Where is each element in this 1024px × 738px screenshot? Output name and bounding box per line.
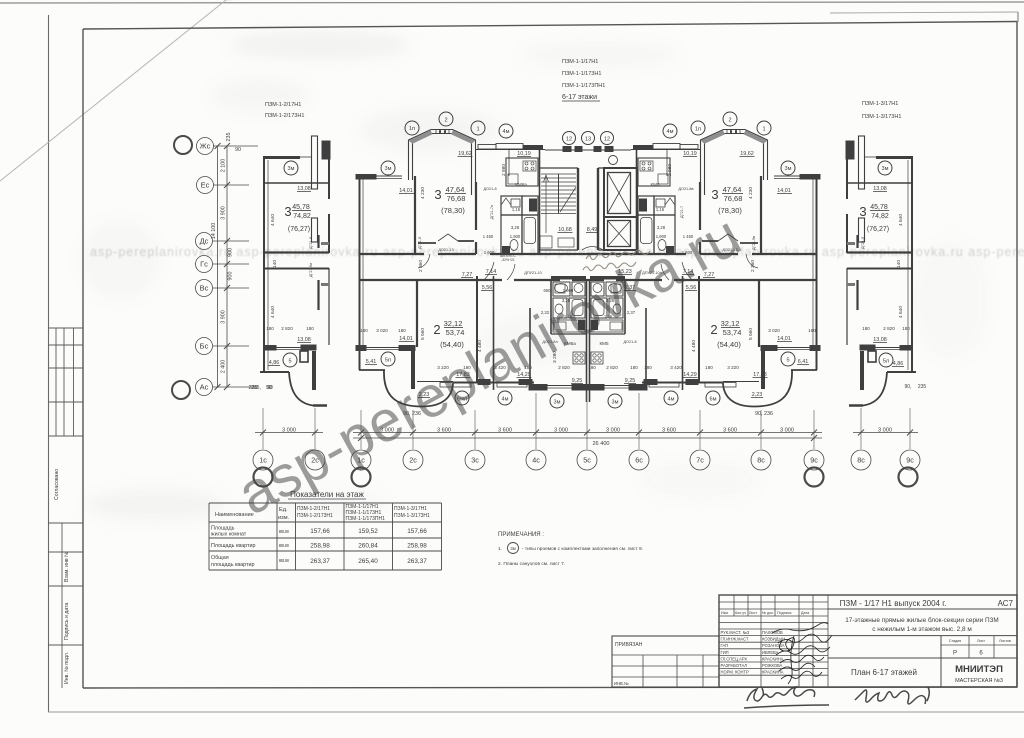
svg-text:(78,30): (78,30) xyxy=(441,206,465,215)
svg-text:1,16: 1,16 xyxy=(604,314,613,319)
svg-text:235: 235 xyxy=(918,384,927,390)
title area texts xyxy=(840,599,1014,684)
svg-text:Взам. инв №: Взам. инв № xyxy=(64,551,70,582)
svg-text:900: 900 xyxy=(228,272,234,281)
svg-text:76,68: 76,68 xyxy=(447,194,466,203)
svg-text:13: 13 xyxy=(585,137,591,143)
svg-text:5,56: 5,56 xyxy=(482,285,493,291)
svg-text:3: 3 xyxy=(859,204,866,219)
svg-text:5,56: 5,56 xyxy=(686,285,697,291)
left tower window wall xyxy=(264,346,276,351)
bay window walls (outlined) xyxy=(409,130,476,196)
svg-text:3 420: 3 420 xyxy=(494,365,506,370)
svg-text:3м: 3м xyxy=(612,400,619,406)
svg-text:№ док.: № док. xyxy=(762,611,774,615)
svg-text:263,37: 263,37 xyxy=(407,558,427,565)
svg-text:7,14: 7,14 xyxy=(683,269,694,275)
svg-text:5 560: 5 560 xyxy=(420,328,426,340)
svg-text:19,62: 19,62 xyxy=(458,151,472,157)
svg-text:19,62: 19,62 xyxy=(740,151,754,157)
svg-text:10,19: 10,19 xyxy=(683,151,697,157)
svg-text:45,78: 45,78 xyxy=(292,204,310,211)
svg-text:53,74: 53,74 xyxy=(723,328,742,337)
svg-text:7с: 7с xyxy=(696,456,704,465)
svg-text:90: 90 xyxy=(235,147,241,153)
kitchen xyxy=(506,158,538,186)
svg-text:180: 180 xyxy=(630,365,638,370)
svg-text:13,08: 13,08 xyxy=(297,186,311,192)
svg-text:Дата: Дата xyxy=(801,611,810,615)
bottom axis extension lines xyxy=(263,393,910,449)
svg-text:13,08: 13,08 xyxy=(873,186,887,192)
svg-text:1п: 1п xyxy=(695,127,701,133)
scan mottling xyxy=(80,31,990,521)
svg-text:-32%+21: -32%+21 xyxy=(501,258,515,262)
svg-text:180: 180 xyxy=(644,365,652,370)
svg-text:ПЗМ-1-3/173Н1: ПЗМ-1-3/173Н1 xyxy=(394,513,430,519)
svg-text:3,28: 3,28 xyxy=(606,298,615,303)
svg-text:2: 2 xyxy=(433,322,440,337)
svg-text:Листов: Листов xyxy=(999,639,1011,643)
svg-text:90, 236: 90, 236 xyxy=(403,411,421,417)
svg-text:157,66: 157,66 xyxy=(407,528,427,535)
left tower right wall xyxy=(328,159,330,199)
main grid horizontals xyxy=(719,602,828,675)
svg-text:жилых комнат: жилых комнат xyxy=(211,532,247,538)
svg-text:АС7: АС7 xyxy=(998,599,1014,608)
svg-text:74,82: 74,82 xyxy=(293,213,311,220)
hall top wall xyxy=(476,149,545,151)
left tower inner wall xyxy=(312,136,318,189)
svg-text:КМ5а: КМ5а xyxy=(564,341,576,346)
svg-text:14,01: 14,01 xyxy=(399,336,413,342)
svg-text:ДО21-8л: ДО21-8л xyxy=(542,340,557,344)
svg-text:Лист: Лист xyxy=(749,611,757,615)
axis circles left xyxy=(197,138,214,155)
svg-text:ДО21-13: ДО21-13 xyxy=(722,248,737,252)
outer boxes xyxy=(719,595,1017,687)
lower bath fixtures xyxy=(553,282,570,296)
svg-text:10,68: 10,68 xyxy=(558,227,572,233)
svg-text:9,25: 9,25 xyxy=(572,378,583,384)
flat3 right wall xyxy=(475,182,477,230)
svg-text:2,23: 2,23 xyxy=(752,392,763,398)
handwritten note on plan xyxy=(583,250,650,270)
svg-text:2,23: 2,23 xyxy=(419,392,430,398)
svg-text:4 230: 4 230 xyxy=(748,187,754,199)
lobby mats xyxy=(540,236,552,248)
svg-text:6м: 6м xyxy=(710,397,717,403)
top-right strip xyxy=(830,12,1018,13)
svg-text:3 000: 3 000 xyxy=(878,428,892,434)
svg-text:2 100: 2 100 xyxy=(221,159,227,173)
svg-text:ДГ21-7л: ДГ21-7л xyxy=(490,205,494,219)
svg-text:4 640: 4 640 xyxy=(898,306,904,318)
svg-text:180: 180 xyxy=(862,326,870,331)
svg-text:Подпись и дата: Подпись и дата xyxy=(64,603,70,640)
svg-text:235: 235 xyxy=(249,385,258,391)
label underlines xyxy=(268,157,904,398)
role/name rows xyxy=(721,630,786,675)
svg-text:ДГ21-9: ДГ21-9 xyxy=(418,237,422,249)
svg-text:90, 236: 90, 236 xyxy=(755,411,773,417)
svg-text:Подпись: Подпись xyxy=(777,611,792,615)
svg-text:2 820: 2 820 xyxy=(281,326,293,331)
svg-text:Инв. № подл.: Инв. № подл. xyxy=(64,652,70,684)
svg-text:Р: Р xyxy=(953,651,957,657)
svg-text:5л: 5л xyxy=(883,359,889,365)
left tower top-right pier xyxy=(322,141,330,159)
loggia walls bottom-left xyxy=(359,369,385,371)
wall between 3m room and flat3 xyxy=(414,176,416,254)
svg-text:180: 180 xyxy=(463,365,471,370)
svg-text:32,12: 32,12 xyxy=(721,319,740,328)
svg-text:Площадь квартир: Площадь квартир xyxy=(211,543,255,549)
left axis dimension texts (rotated) xyxy=(211,133,272,392)
svg-text:ДО21-8: ДО21-8 xyxy=(483,187,496,191)
svg-text:5: 5 xyxy=(786,358,789,364)
svg-text:1с: 1с xyxy=(357,456,365,465)
signatures xyxy=(772,623,832,684)
svg-text:8,49: 8,49 xyxy=(587,227,598,233)
main grid verticals xyxy=(734,595,828,687)
svg-text:2 820: 2 820 xyxy=(883,326,895,331)
svg-text:МНИИТЭП: МНИИТЭП xyxy=(955,664,1003,675)
svg-text:КМ6а: КМ6а xyxy=(515,182,527,187)
svg-text:ДПУ21-10: ДПУ21-10 xyxy=(524,271,541,275)
svg-text:площадь квартир: площадь квартир xyxy=(211,562,255,568)
svg-text:5,41: 5,41 xyxy=(366,359,377,365)
svg-text:180: 180 xyxy=(902,326,910,331)
left tower top wall xyxy=(263,156,300,159)
paper top edge xyxy=(0,2,1024,3)
svg-text:45,78: 45,78 xyxy=(870,204,888,211)
svg-text:ГЛ.СПЕЦ.АРХ: ГЛ.СПЕЦ.АРХ xyxy=(721,656,748,661)
stair treads (left only) xyxy=(540,174,576,248)
svg-text:258,98: 258,98 xyxy=(407,543,427,550)
svg-text:ДГ21-9л: ДГ21-9л xyxy=(309,263,313,277)
svg-text:ГИП: ГИП xyxy=(721,650,729,655)
svg-text:КРАСКИНА: КРАСКИНА xyxy=(762,670,784,675)
svg-text:14,29: 14,29 xyxy=(683,372,697,378)
flat2 right wall xyxy=(476,276,478,382)
svg-text:900: 900 xyxy=(228,248,234,257)
svg-text:8с: 8с xyxy=(857,456,865,465)
paper bottom edge xyxy=(48,711,1024,713)
svg-text:180: 180 xyxy=(524,365,532,370)
svg-text:6,41: 6,41 xyxy=(798,359,809,365)
svg-text:4м: 4м xyxy=(503,129,510,135)
svg-text:3 600: 3 600 xyxy=(662,428,676,434)
svg-text:ИНВ.№: ИНВ.№ xyxy=(614,681,629,686)
svg-text:ПЗМ-1-3/173Н1: ПЗМ-1-3/173Н1 xyxy=(862,114,901,120)
svg-text:2с: 2с xyxy=(311,456,319,465)
svg-text:Стадия: Стадия xyxy=(949,639,961,643)
watermark horizontal band xyxy=(90,245,1024,259)
svg-text:- типы проемов с комплектами з: - типы проемов с комплектами заполнения … xyxy=(522,546,643,552)
svg-text:3 000: 3 000 xyxy=(606,428,620,434)
tiny fixture labels xyxy=(438,182,737,346)
стадия box xyxy=(968,636,970,658)
corridor door arcs xyxy=(418,254,430,268)
svg-text:ДГ21-9: ДГ21-9 xyxy=(309,237,313,249)
svg-text:180: 180 xyxy=(398,328,406,333)
svg-text:3 000: 3 000 xyxy=(282,428,296,434)
svg-text:5с: 5с xyxy=(583,456,591,465)
svg-text:Изм: Изм xyxy=(721,611,728,615)
svg-text:3 020: 3 020 xyxy=(768,328,780,333)
svg-text:5: 5 xyxy=(288,359,291,365)
svg-text:1: 1 xyxy=(476,127,479,133)
svg-text:14,01: 14,01 xyxy=(777,336,791,342)
svg-text:3 000: 3 000 xyxy=(780,428,794,434)
lower core walls xyxy=(550,280,552,334)
svg-text:7,27: 7,27 xyxy=(462,272,473,278)
room dimension labels xyxy=(251,151,926,417)
left column rotated captions xyxy=(54,469,70,684)
svg-text:3 600: 3 600 xyxy=(723,428,737,434)
svg-text:Гс: Гс xyxy=(200,260,208,269)
svg-text:ГЛ.ИНЖ.МАСТ: ГЛ.ИНЖ.МАСТ xyxy=(721,637,749,642)
svg-text:КМ6: КМ6 xyxy=(650,182,660,187)
svg-text:ПЗМ-1-3/17Н1: ПЗМ-1-3/17Н1 xyxy=(862,101,898,107)
svg-text:7,14: 7,14 xyxy=(486,269,497,275)
svg-text:3 900: 3 900 xyxy=(221,310,227,324)
svg-text:140: 140 xyxy=(896,260,902,268)
svg-text:4м: 4м xyxy=(668,397,675,403)
top wall of core zone xyxy=(545,149,588,151)
svg-text:157,66: 157,66 xyxy=(310,528,330,535)
stove lower xyxy=(573,352,585,364)
svg-text:4 230: 4 230 xyxy=(420,187,426,199)
svg-text:ДГ21-7: ДГ21-7 xyxy=(680,206,684,218)
bottom axis circles xyxy=(253,450,920,487)
window sill outlines lower xyxy=(440,383,471,388)
svg-text:3 220: 3 220 xyxy=(437,365,449,370)
svg-text:ГАП: ГАП xyxy=(721,643,729,648)
svg-text:4,86: 4,86 xyxy=(893,361,904,367)
svg-text:258,98: 258,98 xyxy=(310,543,330,550)
svg-text:Показатели на этаж: Показатели на этаж xyxy=(290,490,364,499)
svg-text:180: 180 xyxy=(266,326,274,331)
svg-text:ПЗМ-1-2/173Н1: ПЗМ-1-2/173Н1 xyxy=(297,513,333,519)
bottom dimension lines xyxy=(255,432,323,434)
handwritten inventory number xyxy=(744,687,929,708)
svg-text:ПЗМ-1-1/173Н1: ПЗМ-1-1/173Н1 xyxy=(562,71,601,77)
svg-text:ПЗМ-1-2/17Н1: ПЗМ-1-2/17Н1 xyxy=(297,506,330,512)
bathroom cluster upper xyxy=(501,196,522,215)
left stamp column grid xyxy=(49,328,84,688)
svg-text:9с: 9с xyxy=(810,456,818,465)
svg-text:3: 3 xyxy=(284,204,291,219)
svg-text:3м: 3м xyxy=(385,166,392,172)
svg-text:кв.м: кв.м xyxy=(279,529,289,535)
svg-text:180: 180 xyxy=(705,365,713,370)
small dim strings xyxy=(266,326,910,370)
flat3 room bottom door xyxy=(418,242,436,244)
svg-text:74,82: 74,82 xyxy=(871,213,889,220)
svg-text:(54,40): (54,40) xyxy=(440,340,464,349)
svg-text:5 560: 5 560 xyxy=(748,328,754,340)
svg-text:2 820: 2 820 xyxy=(558,365,570,370)
rotated dim labels xyxy=(270,164,904,363)
svg-text:1.: 1. xyxy=(498,546,502,552)
svg-text:17,83: 17,83 xyxy=(456,372,470,378)
svg-text:4м: 4м xyxy=(667,129,674,135)
svg-text:ПЗМ-1-3/17Н1: ПЗМ-1-3/17Н1 xyxy=(394,506,427,512)
svg-text:ПЗМ-1-2/173Н1: ПЗМ-1-2/173Н1 xyxy=(265,113,304,119)
lower window wall xyxy=(399,346,415,351)
svg-text:2с: 2с xyxy=(409,456,417,465)
svg-text:13,08: 13,08 xyxy=(297,337,311,343)
left axis dimension lines xyxy=(226,146,228,387)
svg-text:ДО21-8: ДО21-8 xyxy=(623,340,636,344)
svg-text:6-17 этажи: 6-17 этажи xyxy=(562,94,597,101)
svg-text:2: 2 xyxy=(710,322,717,337)
svg-text:(54,40): (54,40) xyxy=(717,340,741,349)
svg-text:14,01: 14,01 xyxy=(777,188,791,194)
left tower floor divider xyxy=(264,182,329,184)
svg-text:3 000: 3 000 xyxy=(380,428,394,434)
svg-text:76,68: 76,68 xyxy=(724,194,743,203)
svg-text:1,16: 1,16 xyxy=(564,314,573,319)
svg-text:90,: 90, xyxy=(905,384,912,390)
svg-text:Согласовано: Согласовано xyxy=(54,469,60,500)
svg-text:14 100: 14 100 xyxy=(211,223,217,240)
flat2 left wall xyxy=(416,280,418,347)
svg-text:14,29: 14,29 xyxy=(517,372,531,378)
svg-text:3 420: 3 420 xyxy=(670,365,682,370)
svg-text:10,19: 10,19 xyxy=(517,151,531,157)
svg-text:2,37: 2,37 xyxy=(627,310,636,315)
svg-text:3м: 3м xyxy=(882,166,889,172)
svg-text:1п: 1п xyxy=(409,126,415,132)
svg-text:3м: 3м xyxy=(785,166,792,172)
svg-text:3м: 3м xyxy=(288,166,295,172)
svg-text:235: 235 xyxy=(226,133,232,142)
svg-text:12: 12 xyxy=(566,137,572,143)
svg-text:ДГ21-9: ДГ21-9 xyxy=(861,237,865,249)
lower bath extra fixtures xyxy=(555,284,565,293)
svg-text:53,74: 53,74 xyxy=(446,328,465,337)
svg-text:9с: 9с xyxy=(906,456,914,465)
svg-text:4 480: 4 480 xyxy=(477,340,483,352)
svg-text:(78,30): (78,30) xyxy=(718,206,742,215)
svg-text:3,28: 3,28 xyxy=(511,225,520,230)
tower right-side stubs xyxy=(317,235,319,248)
main top pier + window xyxy=(356,175,376,180)
main block outer left wall xyxy=(359,176,361,347)
svg-text:РОЖКОВА: РОЖКОВА xyxy=(762,663,783,668)
svg-text:180: 180 xyxy=(360,328,368,333)
stair block outline xyxy=(539,150,541,254)
paper left edge xyxy=(48,15,50,712)
svg-text:2 360: 2 360 xyxy=(750,260,756,272)
svg-text:1,16: 1,16 xyxy=(512,207,521,212)
plan circled labels xyxy=(283,112,893,408)
left tower loggia xyxy=(300,351,308,362)
left tower corridor walls xyxy=(264,251,329,253)
svg-text:17,83: 17,83 xyxy=(753,372,767,378)
svg-text:2 400: 2 400 xyxy=(221,360,227,374)
svg-text:9,25: 9,25 xyxy=(625,378,636,384)
svg-text:КМ5: КМ5 xyxy=(599,341,609,346)
svg-text:РОЗАНОВА: РОЗАНОВА xyxy=(762,643,785,648)
svg-text:ПЗМ - 1/17 Н1 выпуск 2004 г.: ПЗМ - 1/17 Н1 выпуск 2004 г. xyxy=(840,599,947,608)
svg-text:1,900: 1,900 xyxy=(510,234,521,239)
svg-text:265,40: 265,40 xyxy=(358,558,378,565)
left extension grid xyxy=(612,654,719,656)
svg-text:4с: 4с xyxy=(532,456,540,465)
svg-text:2,32: 2,32 xyxy=(541,310,550,315)
svg-text:2 980: 2 980 xyxy=(667,164,673,176)
svg-text:ПРИВЯЗАН: ПРИВЯЗАН xyxy=(615,642,643,648)
svg-text:26 400: 26 400 xyxy=(592,441,609,447)
apartment area labels xyxy=(284,185,889,349)
left tower outer wall xyxy=(263,157,265,372)
svg-text:НОРМ. КОНТР: НОРМ. КОНТР xyxy=(721,670,749,675)
corridor walls xyxy=(359,253,424,255)
svg-text:47,64: 47,64 xyxy=(446,185,465,194)
svg-text:3 600: 3 600 xyxy=(498,428,512,434)
svg-text:3 900: 3 900 xyxy=(221,206,227,220)
svg-text:Кол.уч: Кол.уч xyxy=(735,611,746,615)
svg-text:ПЗМ-1-1/173ПН1: ПЗМ-1-1/173ПН1 xyxy=(346,516,386,522)
svg-text:1 600: 1 600 xyxy=(682,250,693,255)
svg-text:1 450: 1 450 xyxy=(483,234,494,239)
svg-text:Ес: Ес xyxy=(201,181,210,190)
svg-text:12: 12 xyxy=(604,137,610,143)
svg-text:Жс: Жс xyxy=(200,142,211,151)
svg-text:ДО21-13: ДО21-13 xyxy=(438,248,453,252)
svg-text:Лист: Лист xyxy=(977,639,985,643)
svg-text:ДО21-8в: ДО21-8в xyxy=(678,187,693,191)
svg-text:с нежилым 1-м этажом выс. 2,8: с нежилым 1-м этажом выс. 2,8 м xyxy=(872,626,972,633)
svg-text:1 600: 1 600 xyxy=(484,250,495,255)
svg-text:4 640: 4 640 xyxy=(270,306,276,318)
svg-text:17-этажные прямые жилые блок-с: 17-этажные прямые жилые блок-секции сери… xyxy=(845,616,998,624)
svg-text:3 220: 3 220 xyxy=(727,365,739,370)
svg-text:13,08: 13,08 xyxy=(873,337,887,343)
svg-text:ПЗМ-1-1/17Н1: ПЗМ-1-1/17Н1 xyxy=(562,59,598,65)
svg-text:5п: 5п xyxy=(385,358,391,364)
svg-text:180: 180 xyxy=(808,328,816,333)
left half geometry (mirrored for right half) xyxy=(260,130,588,407)
plan section labels xyxy=(265,59,901,120)
svg-text:изм.: изм. xyxy=(278,515,290,521)
svg-text:4 640: 4 640 xyxy=(898,214,904,226)
svg-text:1,900: 1,900 xyxy=(656,234,667,239)
svg-text:ПЗМ-1-2/17Н1: ПЗМ-1-2/17Н1 xyxy=(265,102,301,108)
elevator shafts (right only) xyxy=(582,156,637,251)
svg-text:8с: 8с xyxy=(757,456,765,465)
svg-text:47,64: 47,64 xyxy=(723,185,742,194)
svg-text:263,37: 263,37 xyxy=(310,558,330,565)
svg-text:140: 140 xyxy=(272,260,278,268)
svg-text:ДГ21-9в: ДГ21-9в xyxy=(752,236,756,250)
svg-text:Вс: Вс xyxy=(200,284,209,293)
svg-text:3м: 3м xyxy=(554,400,561,406)
bottom dimension texts xyxy=(282,428,892,448)
svg-text:КРАСКИНА: КРАСКИНА xyxy=(762,656,784,661)
scan crease diagonal xyxy=(0,0,226,181)
svg-text:3: 3 xyxy=(434,187,441,202)
svg-text:(76,27): (76,27) xyxy=(867,226,889,233)
svg-text:2. Планы санузлов см. лист 7.: 2. Планы санузлов см. лист 7. xyxy=(498,561,565,567)
svg-text:3 020: 3 020 xyxy=(376,328,388,333)
axis circle labels left xyxy=(200,142,211,392)
svg-text:ПЗМ-1-1/173ПН1: ПЗМ-1-1/173ПН1 xyxy=(562,83,605,89)
